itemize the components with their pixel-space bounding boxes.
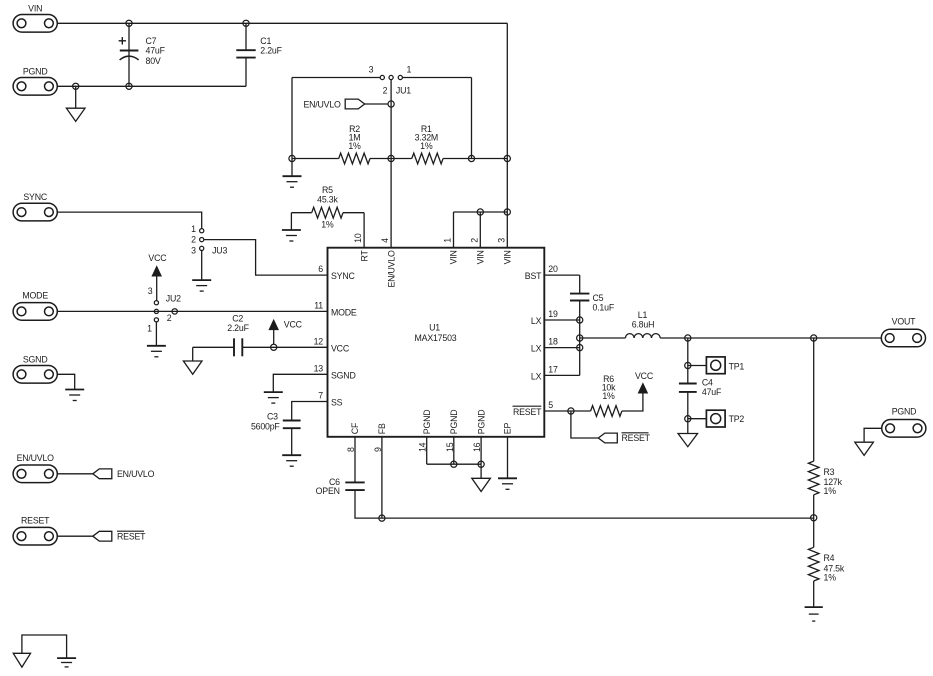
junction R1/JU1 <box>468 155 474 161</box>
wire EN/UVLO conn to tag <box>57 473 93 475</box>
svg-text:RESET: RESET <box>513 407 542 417</box>
ground R2 <box>283 176 302 187</box>
svg-text:EP: EP <box>503 423 513 435</box>
wire PGND to ground <box>864 428 882 442</box>
svg-text:VIN: VIN <box>503 250 513 264</box>
wire pin8 CF to C6 <box>354 437 356 483</box>
wire RT stub <box>363 213 365 248</box>
ground JU3 <box>192 280 211 291</box>
junction RESET <box>568 408 574 414</box>
connector J8 EN/UVLO <box>13 465 57 483</box>
svg-text:VCC: VCC <box>284 319 303 329</box>
wire VCC stem <box>273 330 275 344</box>
wire VOUT to R3 <box>813 338 815 461</box>
wire R2-R1 <box>370 158 391 160</box>
svg-text:12: 12 <box>314 336 324 346</box>
svg-text:16: 16 <box>472 442 482 452</box>
svg-text:1%: 1% <box>321 220 334 230</box>
wire JU2-1 ground stem <box>155 322 157 346</box>
svg-text:VCC: VCC <box>635 371 654 381</box>
wire VIN pin bar <box>454 211 508 213</box>
wire R4 to ground <box>813 581 815 607</box>
wire PGND rail <box>57 85 246 87</box>
svg-text:SS: SS <box>331 398 343 408</box>
junction pin16 <box>478 461 484 467</box>
pin 7 SS <box>318 391 342 408</box>
JU2 pin 1 <box>154 318 158 322</box>
junction R2/ground <box>289 155 295 161</box>
svg-text:1%: 1% <box>824 573 837 583</box>
junction VOUT/R3 <box>811 335 817 341</box>
connector J7 SGND <box>13 366 57 384</box>
junction LX pin18 <box>577 345 583 351</box>
wire PGND bar <box>427 463 481 465</box>
svg-text:PGND: PGND <box>422 410 432 435</box>
pin 17 LX <box>531 364 558 381</box>
connector J9 RESET <box>13 527 57 545</box>
resistor R1 3.32M <box>412 153 443 164</box>
resistor R6 10k <box>591 406 622 417</box>
capacitor C1 2.2uF <box>236 50 255 57</box>
test point TP1 <box>706 357 725 374</box>
capacitor C5 0.1uF <box>570 294 589 301</box>
svg-text:BST: BST <box>525 271 542 281</box>
svg-text:45.3k: 45.3k <box>317 194 338 204</box>
pin 14 PGND <box>418 410 432 452</box>
svg-text:PGND: PGND <box>23 66 48 76</box>
svg-text:EN/UVLO: EN/UVLO <box>386 250 396 288</box>
wire R2 ground stem <box>291 159 293 177</box>
svg-text:20: 20 <box>548 264 558 274</box>
wire SYNC to JU3 <box>57 212 201 229</box>
svg-text:14: 14 <box>418 442 428 452</box>
svg-text:1%: 1% <box>348 141 361 151</box>
junction R1/VIN <box>504 155 510 161</box>
svg-text:MAX17503: MAX17503 <box>415 333 457 343</box>
connector J2 VIN <box>13 15 57 33</box>
svg-text:LX: LX <box>531 344 542 354</box>
svg-text:1: 1 <box>406 64 411 74</box>
svg-text:3: 3 <box>148 286 153 296</box>
wire pin17 LX <box>544 374 579 376</box>
jumper JU3 <box>191 224 227 256</box>
wire pin20 BST <box>544 274 579 276</box>
svg-text:SGND: SGND <box>23 354 48 364</box>
svg-text:8: 8 <box>346 447 356 452</box>
wire C2 left <box>193 346 234 348</box>
resistor R2 1M <box>339 153 370 164</box>
svg-text:5600pF: 5600pF <box>251 422 280 432</box>
junction TP1 <box>685 362 691 368</box>
svg-text:1%: 1% <box>420 141 433 151</box>
ground tie triangle <box>13 653 30 667</box>
JU1 pin 3 <box>380 75 384 79</box>
wire JU3-3 ground stem <box>201 251 203 281</box>
wire EP down <box>507 437 509 479</box>
wire R3 to R4 <box>813 495 815 548</box>
wire JU1 pin1 right <box>402 77 471 79</box>
junction VCC/C2 <box>271 344 277 350</box>
ground R5 <box>282 230 301 241</box>
wire MODE to pin11 <box>57 310 327 312</box>
svg-text:1: 1 <box>443 238 453 243</box>
wire ground tie <box>22 635 67 658</box>
wire to RESET tag <box>571 411 598 438</box>
power flag VCC R6 <box>638 383 647 393</box>
pin 15 PGND <box>445 410 459 452</box>
junction PGND/ground <box>73 83 79 89</box>
pin 6 SYNC <box>318 264 355 281</box>
svg-text:1: 1 <box>191 224 196 234</box>
pin 4 EN/UVLO <box>380 238 396 288</box>
svg-text:80V: 80V <box>146 56 161 66</box>
svg-text:VOUT: VOUT <box>892 316 916 326</box>
connector J3 PGND <box>13 78 57 96</box>
junction PGND/C7 <box>126 83 132 89</box>
wire C2 ground stem <box>192 347 194 361</box>
junction LX/L1 <box>577 335 583 341</box>
svg-text:VIN: VIN <box>28 3 42 13</box>
ground PGND <box>66 108 85 121</box>
IC U1 MAX17503 <box>328 248 545 437</box>
capacitor C6 OPEN <box>345 482 364 490</box>
wire R2 left <box>292 158 339 160</box>
svg-text:47uF: 47uF <box>702 387 722 397</box>
wire TP1 <box>688 365 707 367</box>
svg-text:MODE: MODE <box>22 291 48 301</box>
capacitor C4 47uF <box>679 384 697 392</box>
svg-text:R4: R4 <box>824 553 835 563</box>
wire JU1-3 to R2 <box>291 78 293 159</box>
svg-text:1%: 1% <box>824 486 837 496</box>
svg-text:JU2: JU2 <box>166 293 181 303</box>
svg-text:PGND: PGND <box>476 410 486 435</box>
pin 19 LX <box>531 309 558 326</box>
svg-text:0.1uF: 0.1uF <box>593 302 615 312</box>
JU3 pin 1 <box>200 229 204 233</box>
svg-text:VCC: VCC <box>331 343 350 353</box>
JU1 pin 1 <box>398 75 402 79</box>
capacitor C2 2.2uF <box>234 338 242 356</box>
junction pin3 <box>504 209 510 215</box>
junction LX pin19 <box>577 317 583 323</box>
wire R5 left <box>291 212 311 214</box>
svg-text:LX: LX <box>531 371 542 381</box>
svg-text:U1: U1 <box>429 323 440 333</box>
wire pin18 LX <box>544 347 579 349</box>
wire pin14 down <box>426 437 428 464</box>
svg-text:C3: C3 <box>267 412 278 422</box>
svg-text:7: 7 <box>318 391 323 401</box>
svg-text:RESET: RESET <box>21 515 50 525</box>
svg-text:2: 2 <box>469 238 479 243</box>
wire JU3-2 to SYNC pin6 <box>204 240 328 276</box>
wire JU1-2 to EN/UVLO pin4 <box>390 80 392 248</box>
svg-text:47uF: 47uF <box>146 45 166 55</box>
wire pin1 stub <box>453 212 455 248</box>
svg-text:LX: LX <box>531 316 542 326</box>
resistor R4 47.5k <box>808 547 819 581</box>
pin 8 CF <box>346 422 360 452</box>
wire R1 left <box>391 158 412 160</box>
power flag VCC JU2 <box>152 266 161 276</box>
junction FB <box>379 515 385 521</box>
svg-text:5: 5 <box>548 400 553 410</box>
svg-text:MODE: MODE <box>331 307 357 317</box>
pin 2 VIN <box>469 238 485 265</box>
capacitor C3 5600pF <box>283 421 301 429</box>
pin 11 MODE <box>314 300 357 317</box>
wire VCC to JU2-3 <box>156 276 158 301</box>
net tag EN/UVLO left <box>93 469 112 479</box>
svg-text:2.2uF: 2.2uF <box>227 323 249 333</box>
junction TP2 <box>685 416 691 422</box>
wire BST to C5 <box>579 275 581 294</box>
svg-text:18: 18 <box>548 337 558 347</box>
junction pin2 <box>477 209 483 215</box>
wire pin3 stub <box>506 212 508 248</box>
svg-text:3: 3 <box>191 245 196 255</box>
pin EP EP <box>503 423 513 435</box>
junction VIN/C7 <box>126 20 132 26</box>
pin 10 RT <box>353 233 369 261</box>
pin 5 RESET <box>513 400 554 417</box>
pin 13 SGND <box>314 363 356 380</box>
svg-text:RESET: RESET <box>622 433 651 443</box>
wire pin5 RESET <box>544 410 590 412</box>
wire pin19 LX <box>544 319 579 321</box>
JU2 pin 2 <box>172 309 177 314</box>
ground R4 <box>805 607 823 621</box>
junction pin15 <box>451 461 457 467</box>
svg-text:VIN: VIN <box>449 250 459 264</box>
JU1 pin 2 <box>389 75 393 79</box>
svg-text:JU3: JU3 <box>212 245 227 255</box>
junction R2/R1/EN <box>388 155 394 161</box>
svg-text:2.2uF: 2.2uF <box>260 46 282 56</box>
svg-text:TP1: TP1 <box>729 361 745 371</box>
junction EN/UVLO <box>388 101 394 107</box>
svg-text:13: 13 <box>314 363 324 373</box>
svg-text:10: 10 <box>353 233 363 243</box>
inductor L1 6.8uH <box>625 334 660 338</box>
svg-text:6.8uH: 6.8uH <box>632 319 654 329</box>
wire pin16 down <box>480 437 482 464</box>
pin 9 FB <box>373 423 387 452</box>
svg-text:SYNC: SYNC <box>331 271 355 281</box>
junction VIN/C1 <box>243 20 249 26</box>
wire R6 to VCC <box>622 393 643 411</box>
wire VOUT rail <box>660 337 881 339</box>
svg-text:PGND: PGND <box>892 406 917 416</box>
svg-text:C2: C2 <box>232 314 243 324</box>
junction FB divider <box>811 515 817 521</box>
svg-text:3: 3 <box>369 64 374 74</box>
svg-text:C4: C4 <box>702 377 713 387</box>
jumper JU2 <box>147 286 181 334</box>
ground SGND <box>65 390 84 401</box>
svg-text:CF: CF <box>350 422 360 434</box>
wire pin7 SS to C3 <box>292 402 328 421</box>
svg-text:PGND: PGND <box>449 410 459 435</box>
wire VOUT to C4 <box>687 338 689 384</box>
wire LX vertical <box>579 301 581 376</box>
connector J4 PGND <box>882 420 926 438</box>
wire LX to L1 <box>580 337 626 339</box>
ground EP <box>498 478 517 489</box>
wire VIN rail <box>57 22 507 24</box>
pin 3 VIN <box>496 238 512 265</box>
svg-text:15: 15 <box>445 442 455 452</box>
resistor R3 127k <box>808 461 819 495</box>
svg-text:3: 3 <box>496 238 506 243</box>
wire pin9 FB down <box>381 437 383 518</box>
JU2 pin 3 <box>154 301 158 305</box>
wire pin2 stub <box>479 212 481 248</box>
wire RESET conn to tag <box>57 535 93 537</box>
wire C6 to FB rail <box>355 490 814 518</box>
svg-text:RT: RT <box>359 249 369 261</box>
svg-text:SYNC: SYNC <box>23 192 47 202</box>
wire EN/UVLO tag <box>365 103 388 105</box>
wire R1 right <box>443 158 507 160</box>
net tag EN/UVLO <box>345 99 365 109</box>
jumper JU1 <box>292 64 472 95</box>
ground PGND pins <box>472 478 491 491</box>
JU3 pin 2 <box>200 238 204 242</box>
wire C1 top <box>245 23 247 50</box>
svg-text:SGND: SGND <box>331 370 356 380</box>
pin 20 BST <box>525 264 558 281</box>
wire C3 to ground <box>291 428 293 455</box>
pin 12 VCC <box>314 336 350 353</box>
svg-text:R3: R3 <box>824 467 835 477</box>
ground C2 <box>183 361 202 374</box>
svg-text:2: 2 <box>383 85 388 95</box>
wire pin15 down <box>453 437 455 464</box>
wire R5 ground stem <box>290 213 292 230</box>
ground C3 <box>282 455 301 466</box>
pin 1 VIN <box>443 238 459 265</box>
ground PGND right <box>855 442 874 455</box>
wire C4 to ground <box>687 392 689 434</box>
svg-text:EN/UVLO: EN/UVLO <box>303 100 341 110</box>
wire JU1-1 to R1 <box>471 78 473 159</box>
wire ground stem <box>75 86 77 108</box>
svg-text:1%: 1% <box>602 391 615 401</box>
svg-text:11: 11 <box>314 300 323 310</box>
svg-text:EN/UVLO: EN/UVLO <box>17 453 55 463</box>
wire C7 vertical <box>128 23 130 86</box>
wire JU1 pin3 left <box>292 77 380 79</box>
svg-text:FB: FB <box>377 423 387 434</box>
svg-text:JU1: JU1 <box>396 85 411 95</box>
JU3 pin 3 <box>200 246 204 250</box>
svg-text:TP2: TP2 <box>729 414 745 424</box>
wire VIN vertical <box>506 23 508 212</box>
wire C2 to pin12 <box>242 346 327 348</box>
wire PGND ground stem <box>480 464 482 478</box>
ground C4 <box>678 434 698 447</box>
net tag RESET left <box>93 531 112 541</box>
svg-text:4: 4 <box>380 238 390 243</box>
pin 16 PGND <box>472 410 486 452</box>
svg-text:VCC: VCC <box>148 253 167 263</box>
power flag VCC pin12 <box>269 320 278 330</box>
svg-text:OPEN: OPEN <box>316 486 340 496</box>
svg-text:17: 17 <box>548 364 558 374</box>
svg-text:19: 19 <box>548 309 558 319</box>
svg-text:6: 6 <box>318 264 323 274</box>
svg-text:2: 2 <box>191 235 196 245</box>
wire TP2 <box>688 418 707 420</box>
junction JU2/MODE <box>154 309 158 313</box>
resistor R5 45.3k <box>312 207 343 218</box>
wire pin13 to ground <box>273 374 327 392</box>
ground JU2 <box>147 346 166 357</box>
junction VOUT/C4 <box>685 335 691 341</box>
svg-text:2: 2 <box>167 313 172 323</box>
wire SGND to ground <box>57 374 74 389</box>
wire R5 right <box>343 212 364 214</box>
wire C1 bottom <box>245 58 247 87</box>
connector J6 SYNC <box>13 203 57 221</box>
net tag RESET <box>598 433 617 443</box>
test point TP2 <box>706 410 725 427</box>
connector J5 MODE <box>13 303 57 321</box>
pin 18 LX <box>531 337 558 354</box>
svg-text:RESET: RESET <box>117 532 146 542</box>
svg-text:1: 1 <box>147 324 152 334</box>
ground tie bar <box>57 658 76 667</box>
svg-text:VIN: VIN <box>476 250 486 264</box>
svg-text:C1: C1 <box>260 36 271 46</box>
capacitor C7 47uF 80V polarized <box>119 37 139 60</box>
connector J1 VOUT <box>881 329 925 347</box>
svg-text:EN/UVLO: EN/UVLO <box>117 469 155 479</box>
ground pin13 <box>264 392 283 403</box>
svg-text:9: 9 <box>373 447 383 452</box>
